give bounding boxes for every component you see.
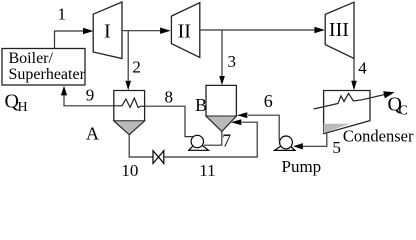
svg-text:II: II xyxy=(178,21,191,43)
svg-text:5: 5 xyxy=(332,138,341,157)
wire turbine I to turbine II xyxy=(122,28,171,34)
condenser cooling water line with Qc arrow xyxy=(314,91,395,109)
svg-text:6: 6 xyxy=(264,91,273,111)
svg-text:9: 9 xyxy=(86,86,95,105)
pump (condensate pump) xyxy=(275,136,296,150)
boiler/superheater box xyxy=(2,49,86,86)
feedwater heater B xyxy=(195,85,236,131)
svg-text:7: 7 xyxy=(222,130,231,150)
throttle valve xyxy=(153,151,164,164)
svg-text:10: 10 xyxy=(121,161,138,179)
feedwater heater A xyxy=(114,91,145,135)
heater A internal coil xyxy=(114,98,145,108)
svg-text:Condenser: Condenser xyxy=(343,127,414,146)
svg-text:Pump: Pump xyxy=(282,157,322,176)
svg-text:H: H xyxy=(18,100,28,115)
wire stream 9 (A coil to boiler) xyxy=(61,86,114,106)
svg-text:A: A xyxy=(86,123,99,143)
svg-text:8: 8 xyxy=(165,87,174,106)
svg-text:C: C xyxy=(399,104,408,119)
wire stream 1 (boiler to turbine I) xyxy=(55,28,94,49)
svg-text:I: I xyxy=(104,21,111,43)
svg-text:III: III xyxy=(329,19,349,41)
svg-text:Boiler/: Boiler/ xyxy=(9,50,54,67)
svg-text:11: 11 xyxy=(199,161,215,179)
svg-text:4: 4 xyxy=(358,58,367,77)
svg-text:B: B xyxy=(195,95,207,115)
wire stream 2 (to heater A) xyxy=(125,31,131,90)
wire turbine II to turbine III xyxy=(200,27,325,33)
turbine III xyxy=(325,2,354,58)
condenser body xyxy=(324,91,370,134)
svg-text:3: 3 xyxy=(228,52,237,71)
wire stream 6 (pump to heater B) xyxy=(237,112,279,141)
turbine I xyxy=(93,2,122,59)
svg-text:Superheater: Superheater xyxy=(9,66,86,83)
wire stream 5 (condenser to pump) xyxy=(293,133,327,150)
label QH xyxy=(5,91,28,116)
label Qc xyxy=(388,94,408,119)
turbine II xyxy=(171,3,199,58)
wire stream 11 (valve to heater B) xyxy=(164,119,257,157)
pump (drip pump under B) xyxy=(189,135,209,150)
wire stream 8 (drip pump to heater A coil) xyxy=(145,106,194,136)
svg-text:2: 2 xyxy=(132,57,141,76)
wire stream 10 (A drain to valve) xyxy=(129,135,153,157)
wire stream 7 (B to drip pump) xyxy=(204,131,222,145)
svg-text:1: 1 xyxy=(58,5,67,24)
wire stream 4 (to condenser) xyxy=(351,58,357,90)
wire stream 3 (to heater B) xyxy=(219,30,225,85)
